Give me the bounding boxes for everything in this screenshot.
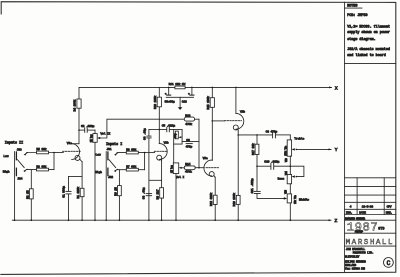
capacitor C6 470p <box>182 139 199 149</box>
svg-text:C13: C13 <box>182 100 187 103</box>
svg-text:470k: 470k <box>185 122 192 126</box>
svg-text:VR3: VR3 <box>285 158 288 162</box>
potentiometer VR3 Treble 250k lin <box>284 135 304 175</box>
svg-text:R1 820k: R1 820k <box>76 187 80 199</box>
svg-text:High: High <box>3 169 10 173</box>
svg-text:JS1: JS1 <box>107 148 112 151</box>
resistor R16 100k <box>232 193 240 220</box>
svg-text:Inputs II: Inputs II <box>5 141 23 145</box>
capacitor C1 330u <box>63 186 72 220</box>
potentiometer VR5 Middle 25k lin <box>284 189 309 220</box>
svg-text:R4 100k: R4 100k <box>73 99 77 111</box>
svg-text:Fax: 367996 JGM: Fax: 367996 JGM <box>345 268 365 271</box>
svg-text:R10 100k: R10 100k <box>153 95 157 109</box>
svg-text:Low: Low <box>96 153 101 156</box>
svg-text:BLETCHLEY: BLETCHLEY <box>345 255 360 258</box>
capacitor C13 50+50u with ground <box>165 87 194 103</box>
svg-text:C11 .022μ: C11 .022μ <box>251 178 254 193</box>
svg-text:V1,2= ECC83. filament: V1,2= ECC83. filament <box>347 25 390 30</box>
resistor R12 820 <box>209 192 217 220</box>
svg-text:VR5: VR5 <box>285 189 288 193</box>
notes box <box>345 2 396 272</box>
svg-text:Treble: Treble <box>294 137 304 141</box>
wire: ground bus <box>12 219 331 221</box>
svg-text:ISS.: ISS. <box>346 212 353 215</box>
jack JS2 (High, ch I) <box>95 160 117 179</box>
revision row: 4 / 18-5-88 / CFV <box>350 205 392 208</box>
resistor R14 470k <box>184 163 204 174</box>
svg-text:470k: 470k <box>185 170 192 174</box>
wire: Vol II wiper to R13 <box>99 119 184 138</box>
wire: bass rheostat loop <box>290 166 304 176</box>
revision table rules <box>345 178 396 246</box>
svg-text:470p: 470p <box>186 146 193 149</box>
svg-text:DATE: DATE <box>359 212 366 215</box>
svg-text:C8 470p: C8 470p <box>266 131 278 134</box>
resistor R11 10k 1W <box>169 82 186 89</box>
svg-text:R14: R14 <box>185 163 190 166</box>
triode V1b <box>154 141 169 161</box>
triode V1a <box>63 142 81 161</box>
svg-text:supply shown on power: supply shown on power <box>347 30 390 35</box>
svg-text:R16 100k: R16 100k <box>232 193 236 207</box>
ground symbol <box>178 97 183 110</box>
wire: grid join ch II <box>53 152 63 170</box>
resistor R5 68k <box>27 147 55 154</box>
svg-text:1M log: 1M log <box>89 134 93 142</box>
svg-text:4: 4 <box>350 205 352 208</box>
svg-text:R6 1M: R6 1M <box>114 187 117 196</box>
triode V2b <box>224 87 245 130</box>
node Y output arrow <box>296 147 337 153</box>
svg-text:C2 .022μ: C2 .022μ <box>81 125 95 128</box>
svg-text:C5 .022μ: C5 .022μ <box>162 125 176 128</box>
svg-text:R11 10k 1W: R11 10k 1W <box>169 82 186 86</box>
resistor R3 68k <box>27 164 55 171</box>
node Z output arrow <box>329 218 338 224</box>
svg-text:MARSHALL: MARSHALL <box>346 239 394 247</box>
svg-text:Low: Low <box>3 155 8 158</box>
jack JS4 (High, ch II) <box>3 160 27 181</box>
svg-text:JS2/A chassis mounted: JS2/A chassis mounted <box>347 47 390 52</box>
svg-text:R7 68k: R7 68k <box>126 164 136 168</box>
svg-text:C1 330μ: C1 330μ <box>63 186 66 198</box>
capacitor C7 500p bright loop <box>174 130 182 163</box>
svg-text:STD: STD <box>378 226 384 230</box>
wire: V2a anode to V2b grid <box>212 120 225 122</box>
svg-text:V2b: V2b <box>240 109 245 113</box>
svg-text:Middle: Middle <box>299 197 309 201</box>
svg-text:50+50μ: 50+50μ <box>165 100 175 103</box>
svg-text:X: X <box>335 86 338 92</box>
svg-text:18-5-88: 18-5-88 <box>362 205 374 208</box>
wire: V1a cathode <box>69 159 83 191</box>
potentiometer VR4 Bass 1M lin <box>278 165 298 194</box>
wire: jacks II ground <box>14 152 16 221</box>
wire: grid join ch I <box>144 152 155 170</box>
wire: mixer join to V2a grid <box>198 119 200 168</box>
svg-text:CFV: CFV <box>387 205 392 208</box>
svg-text:MILTON KEYNES: MILTON KEYNES <box>345 261 366 264</box>
svg-text:R2 1M: R2 1M <box>26 190 29 199</box>
resistor R9 68k <box>117 147 145 154</box>
svg-text:250k lin: 250k lin <box>284 145 287 155</box>
svg-text:R8 2k7: R8 2k7 <box>156 189 160 199</box>
svg-text:R17 33k: R17 33k <box>251 143 255 155</box>
resistor R1 820 <box>76 187 84 221</box>
svg-text:High: High <box>95 170 102 174</box>
svg-text:PRODUCTS LTD.: PRODUCTS LTD. <box>353 251 374 254</box>
svg-text:Vol II: Vol II <box>100 131 110 135</box>
svg-text:Inputs I: Inputs I <box>106 143 122 147</box>
capacitor C5 .022u <box>159 125 182 132</box>
svg-text:DRN.: DRN. <box>386 212 393 215</box>
capacitor C10 .022u <box>256 160 290 169</box>
wire: jacks I ground <box>105 152 107 221</box>
capacitor C3 .68u <box>142 187 151 199</box>
svg-text:25k lin: 25k lin <box>294 195 297 204</box>
capacitor C11 .022u <box>251 178 285 198</box>
svg-text:C4 .68μ: C4 .68μ <box>143 128 146 140</box>
svg-text:VR4: VR4 <box>285 171 288 175</box>
svg-text:Bass: Bass <box>278 177 285 180</box>
svg-text:C6: C6 <box>186 139 190 142</box>
address block <box>345 248 374 271</box>
svg-text:Y: Y <box>335 147 338 153</box>
svg-text:V1b: V1b <box>164 141 169 145</box>
copyright mark <box>384 258 394 268</box>
wire: V1b cathode <box>149 159 162 188</box>
svg-text:stage diagram.: stage diagram. <box>347 37 376 42</box>
resistor R13 470k <box>184 114 199 126</box>
svg-text:Vol I: Vol I <box>176 175 185 179</box>
svg-text:C10 .022μ: C10 .022μ <box>264 160 279 163</box>
node V1b anode junction <box>159 129 161 131</box>
resistor R8 2k7 <box>156 188 164 221</box>
title block <box>345 178 396 271</box>
svg-text:PREAMP: PREAMP <box>355 231 364 234</box>
resistor R4 100k <box>73 99 81 111</box>
svg-text:C3 .68μ: C3 .68μ <box>142 187 145 199</box>
SECTION: schematic <box>3 82 338 224</box>
svg-text:R12 820k: R12 820k <box>209 192 213 206</box>
resistor R6 1M <box>114 170 121 221</box>
svg-text:R15 100k: R15 100k <box>206 96 210 110</box>
wire: B+ rail <box>79 87 332 144</box>
svg-text:R5 68k: R5 68k <box>36 147 46 151</box>
svg-text:JS4: JS4 <box>17 177 22 180</box>
revision header: ISS. DATE DRN. <box>346 212 393 215</box>
wire: V2a cathode <box>214 176 215 197</box>
svg-text:and linked to board: and linked to board <box>347 53 386 58</box>
svg-text:C: C <box>387 260 391 267</box>
capacitor C2 .022u <box>79 125 95 132</box>
jack JS1 (Low, ch I) <box>96 148 118 160</box>
jack JS3 (Low, ch II) <box>3 148 27 159</box>
triode V2a <box>203 157 219 177</box>
potentiometer VR1 Vol I 1M log <box>169 163 184 220</box>
svg-text:R3 68k: R3 68k <box>36 164 46 168</box>
resistor R7 68k <box>117 164 145 171</box>
node X output arrow <box>329 86 338 92</box>
potentiometer VR2 Vol II 1M log <box>89 130 111 220</box>
svg-text:JS2: JS2 <box>108 176 113 179</box>
svg-text:V2a: V2a <box>203 157 208 160</box>
capacitor C8 470p <box>266 131 291 138</box>
node V1a anode junction <box>78 129 80 131</box>
svg-text:R13: R13 <box>185 114 190 117</box>
wire: V2b cathode node <box>237 129 271 196</box>
svg-text:Z: Z <box>335 218 338 224</box>
capacitor C4 .68u <box>143 128 159 220</box>
svg-text:R9 68k: R9 68k <box>126 147 136 151</box>
svg-text:PCB: JMP50: PCB: JMP50 <box>347 14 367 18</box>
drawing number: 1987 STD PREAMP <box>347 220 385 234</box>
svg-text:1M log: 1M log <box>169 165 173 173</box>
resistor R15 100k <box>206 87 214 160</box>
resistor R10 100k <box>153 87 161 143</box>
svg-text:JS3: JS3 <box>17 148 22 151</box>
resistor R17 33k <box>251 134 259 191</box>
resistor R2 1M <box>26 170 33 221</box>
